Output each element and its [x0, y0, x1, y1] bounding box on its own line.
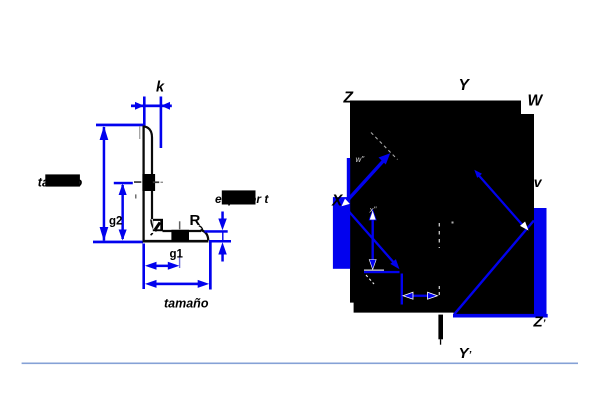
- left long diagonal with SE arrowhead: [345, 207, 400, 270]
- Z axis arrow (right, short): [474, 170, 528, 231]
- faint white dot: [452, 222, 454, 224]
- bottom blue line: [453, 314, 548, 318]
- gauge line below (thin periwinkle): [179, 256, 180, 269]
- blue edge line above left bar: [347, 158, 350, 198]
- Y' axis black bar below figure: [438, 315, 443, 340]
- white dashed Y axis (lower part): [438, 286, 440, 296]
- black base polygon: [350, 101, 534, 315]
- redaction box espesor: [222, 190, 256, 204]
- white baseline tick: [364, 270, 384, 271]
- angle profile bottom outer face: [143, 240, 209, 243]
- svg-text:w": w": [356, 155, 366, 164]
- svg-text:v: v: [534, 174, 543, 190]
- svg-text:g1: g1: [170, 248, 184, 260]
- W axis arrow (left, NE): [342, 153, 391, 206]
- tiny grey tick below hole: [135, 194, 137, 198]
- y-bar vertical double arrow: [369, 210, 376, 270]
- left blue bar: [333, 197, 350, 269]
- dim k left tick: [143, 97, 146, 127]
- espesor t upper arrow (points down): [218, 212, 227, 231]
- thin grey artifact line left of leg top: [139, 126, 140, 139]
- tamano right extension line: [209, 242, 212, 290]
- dim g1 double arrow: [145, 262, 179, 270]
- tiny black comma artifact near heel: [151, 234, 153, 236]
- svg-text:Y: Y: [459, 77, 471, 94]
- bottom-left extension line: [93, 241, 143, 244]
- redaction box left: [45, 174, 80, 186]
- dim tamano double arrow (bottom): [145, 280, 209, 288]
- espesor t lower tick: [209, 240, 231, 243]
- svg-text:x": x": [369, 206, 378, 215]
- white dashed Y axis (upper part): [438, 223, 440, 248]
- Y' axis thin tail: [440, 339, 441, 344]
- espesor t upper tick: [205, 230, 228, 233]
- svg-text:Z: Z: [343, 90, 354, 107]
- dim k right tick: [160, 97, 163, 149]
- angle profile horizontal leg inner face: [163, 230, 202, 232]
- gauge dash above hole: [179, 221, 181, 229]
- vertical blue line (leg face extension): [401, 274, 403, 305]
- svg-text:X: X: [331, 193, 344, 210]
- gauge dash right of hole: [153, 181, 159, 183]
- dim g2 arrow: [119, 184, 127, 241]
- top extension line: [96, 124, 144, 127]
- angle profile bottom toe (rounded): [201, 230, 209, 241]
- blue baseline at y=271.5: [364, 271, 400, 273]
- dim g2 top tick: [114, 182, 133, 185]
- svg-text:g2: g2: [109, 216, 122, 228]
- hole (vertical leg): [142, 174, 155, 191]
- R leader curve: [199, 226, 203, 230]
- white dashed Z axis segment (upper-left): [371, 133, 398, 160]
- svg-text:Y’: Y’: [459, 345, 472, 362]
- x-bar horizontal double arrow: [403, 292, 438, 299]
- angle profile outer left face: [142, 126, 144, 240]
- hole (horizontal leg): [171, 230, 189, 241]
- right-angle marker square with diagonal: [153, 219, 163, 231]
- svg-text:W: W: [528, 93, 544, 110]
- espesor t thin connector through leg: [222, 233, 223, 241]
- svg-text:tamaño: tamaño: [164, 297, 209, 311]
- long Z diagonal (right): [454, 221, 534, 315]
- svg-text:k: k: [156, 80, 165, 96]
- fillet arc (inside corner): [151, 219, 157, 231]
- gauge dash left of hole: [134, 181, 141, 183]
- vertical tamano dimension line: [100, 126, 109, 241]
- white dashed segment below baseline: [366, 275, 374, 284]
- g1 left extension line: [142, 244, 145, 290]
- angle profile top toe (rounded): [143, 127, 153, 219]
- espesor t lower arrow (points up): [218, 242, 227, 261]
- bottom separator line: [22, 363, 578, 365]
- right blue bar: [534, 208, 547, 318]
- dim k left arrow: [131, 102, 172, 110]
